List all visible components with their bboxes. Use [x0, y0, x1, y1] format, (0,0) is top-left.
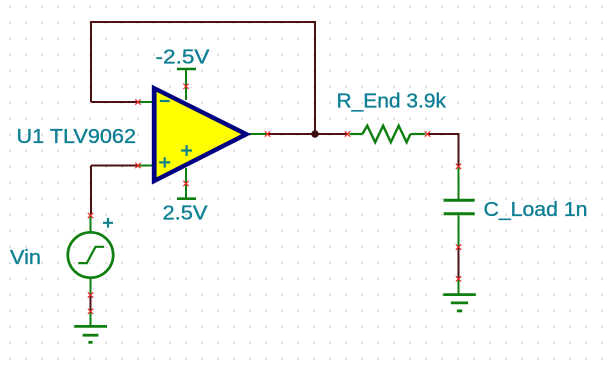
pin x-mark U1 non-inverting input: [135, 163, 140, 168]
supply bar 2.5V: [177, 197, 196, 200]
pin x-mark ground at C_Load: [456, 276, 461, 281]
label R_End 3.9k: [337, 91, 448, 113]
wire feedback left vertical (inverting input to top rail): [90, 22, 92, 102]
label -2.5V: [156, 47, 211, 69]
wire non-inverting input horizontal: [91, 165, 138, 167]
pin x-mark R_End right: [425, 131, 430, 136]
op-amp U1 pin: non-inverting input: [139, 165, 154, 167]
pin x-mark U1 output: [265, 131, 270, 136]
op-amp U1 body (triangle): [152, 85, 251, 185]
svg-text:-2.5V: -2.5V: [156, 47, 211, 69]
op-amp U1 pin: inverting input: [139, 101, 154, 103]
wire non-inverting input down to Vin: [90, 166, 92, 215]
label U1 TLV9062: [17, 126, 137, 148]
pin x-mark U1 inverting input: [135, 99, 140, 104]
op-amp U1 pin: V+ supply (bottom): [185, 168, 187, 198]
voltage source Vin plus polarity sign: [103, 218, 113, 228]
ground (below Vin): [74, 312, 107, 342]
supply bar -2.5V: [177, 68, 196, 71]
voltage source Vin body: [68, 216, 113, 295]
op-amp U1 plus sign (positive supply marker): [181, 145, 192, 156]
pin x-mark Vin bottom: [88, 292, 93, 297]
pin x-mark C_Load top: [456, 164, 461, 169]
pin x-mark U1 V+ supply: [183, 181, 188, 186]
label C_Load 1n: [484, 199, 588, 221]
wire inverting input horizontal: [91, 101, 138, 103]
op-amp U1 minus sign (inverting input marker): [160, 100, 170, 102]
op-amp U1 pin: V- supply (top): [185, 69, 187, 100]
pin x-mark C_Load bottom: [456, 244, 461, 249]
wire resistor corner down to capacitor: [458, 133, 460, 166]
pin x-mark U1 V- supply: [183, 84, 188, 89]
capacitor C_Load body: [444, 168, 475, 247]
wire feedback top horizontal: [90, 21, 316, 23]
op-amp U1 plus sign (non-inverting input marker): [159, 157, 170, 167]
wire feedback right vertical (top rail down to output node): [314, 22, 316, 134]
pin x-mark R_End left: [345, 131, 350, 136]
pin x-mark ground at Vin: [88, 309, 93, 314]
ground (below capacitor): [443, 280, 476, 311]
wire capacitor to ground: [458, 248, 460, 279]
label Vin: [10, 247, 41, 269]
svg-text:2.5V: 2.5V: [163, 203, 209, 225]
wire output to resistor: [268, 133, 347, 135]
wire resistor to capacitor horizontal: [428, 133, 459, 135]
svg-text:R_End 3.9k: R_End 3.9k: [337, 91, 448, 113]
pin x-mark Vin top: [88, 213, 93, 218]
label 2.5V: [163, 203, 209, 225]
wire Vin to ground: [90, 296, 92, 311]
svg-text:Vin: Vin: [10, 247, 41, 269]
op-amp U1 pin: output: [249, 133, 267, 135]
svg-text:U1 TLV9062: U1 TLV9062: [17, 126, 137, 148]
node output junction dot: [311, 130, 318, 137]
resistor R_End body: [350, 126, 426, 143]
svg-text:C_Load 1n: C_Load 1n: [484, 199, 588, 221]
